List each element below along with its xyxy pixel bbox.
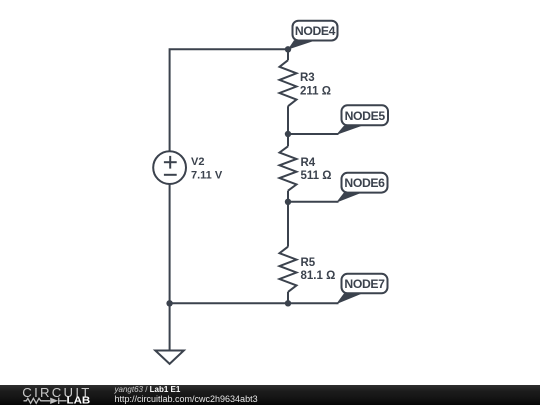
svg-text:NODE5: NODE5	[345, 109, 386, 123]
svg-text:NODE6: NODE6	[344, 176, 385, 190]
svg-text:R3: R3	[300, 72, 315, 84]
svg-text:V2: V2	[191, 156, 204, 168]
svg-text:NODE7: NODE7	[344, 277, 385, 291]
svg-text:81.1 Ω: 81.1 Ω	[301, 270, 336, 282]
svg-text:211 Ω: 211 Ω	[300, 86, 331, 98]
svg-text:R5: R5	[301, 257, 316, 269]
svg-text:R4: R4	[301, 157, 316, 169]
svg-text:511 Ω: 511 Ω	[301, 170, 332, 182]
svg-text:NODE4: NODE4	[295, 24, 336, 38]
svg-text:7.11 V: 7.11 V	[191, 169, 223, 181]
svg-text:LAB: LAB	[67, 395, 91, 405]
